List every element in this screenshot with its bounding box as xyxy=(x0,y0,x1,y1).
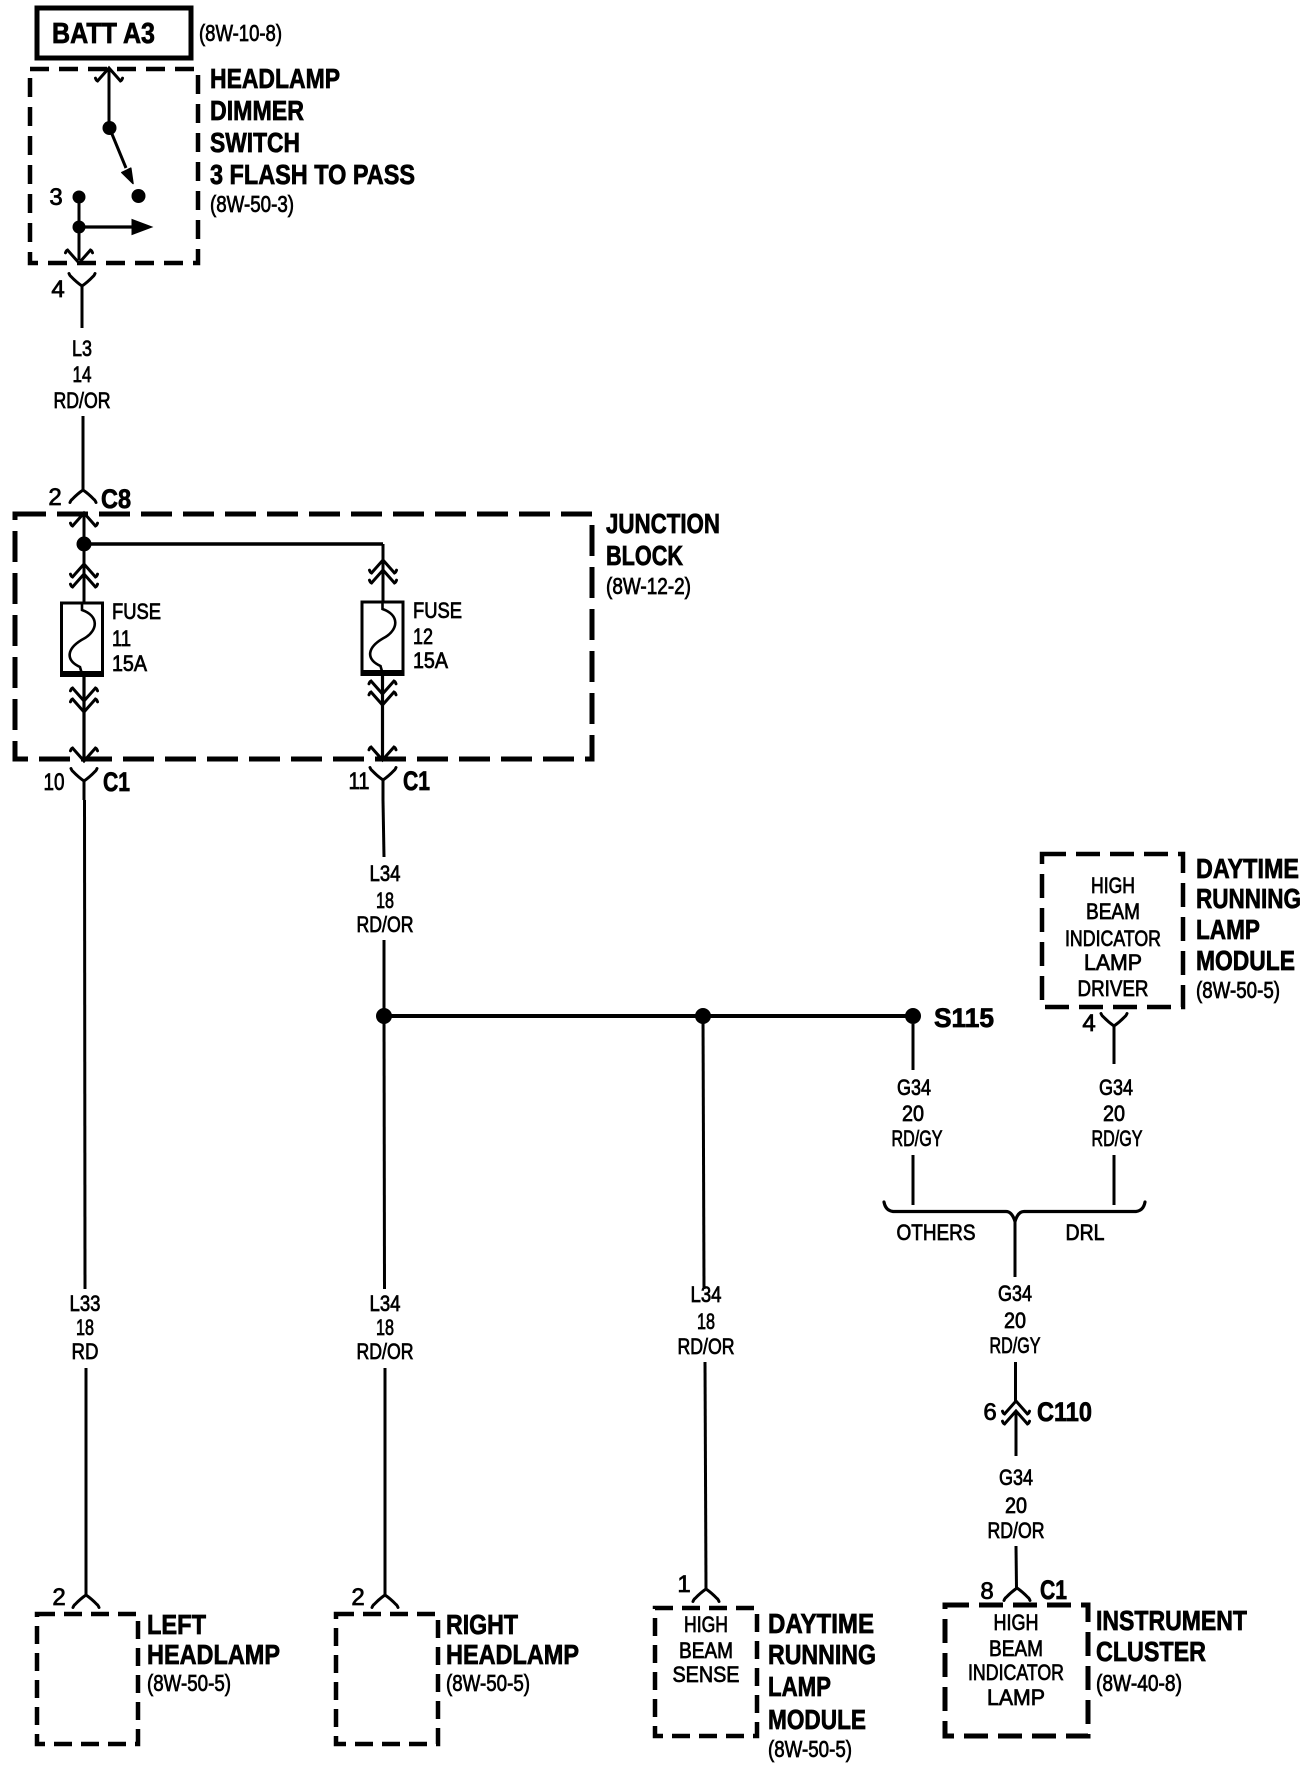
svg-text:LAMP: LAMP xyxy=(987,1685,1045,1710)
svg-text:HEADLAMP: HEADLAMP xyxy=(446,1639,579,1670)
svg-text:OTHERS: OTHERS xyxy=(897,1220,976,1245)
svg-text:18: 18 xyxy=(376,888,394,913)
svg-text:RD: RD xyxy=(72,1339,99,1364)
svg-text:RD/OR: RD/OR xyxy=(54,388,111,413)
svg-text:FUSE: FUSE xyxy=(112,599,161,624)
svg-text:RD/OR: RD/OR xyxy=(357,1339,414,1364)
svg-text:HEADLAMP: HEADLAMP xyxy=(147,1639,280,1670)
svg-text:L34: L34 xyxy=(370,1291,401,1316)
svg-text:10: 10 xyxy=(44,769,65,796)
svg-text:DAYTIME: DAYTIME xyxy=(768,1608,874,1639)
svg-text:(8W-40-8): (8W-40-8) xyxy=(1096,1670,1182,1696)
svg-text:LEFT: LEFT xyxy=(147,1609,206,1640)
svg-text:INSTRUMENT: INSTRUMENT xyxy=(1096,1605,1247,1636)
svg-text:3: 3 xyxy=(49,184,62,211)
svg-text:HIGH: HIGH xyxy=(994,1610,1039,1635)
svg-text:DAYTIME: DAYTIME xyxy=(1196,853,1299,884)
svg-text:11: 11 xyxy=(112,626,131,651)
svg-text:14: 14 xyxy=(73,362,92,387)
svg-text:BEAM: BEAM xyxy=(679,1638,733,1663)
svg-text:DRL: DRL xyxy=(1066,1220,1105,1245)
svg-text:G34: G34 xyxy=(897,1075,931,1100)
svg-text:RUNNING: RUNNING xyxy=(768,1639,876,1670)
svg-text:(8W-50-5): (8W-50-5) xyxy=(446,1670,530,1696)
svg-text:HIGH: HIGH xyxy=(684,1612,728,1637)
svg-text:SENSE: SENSE xyxy=(673,1662,740,1687)
svg-text:SWITCH: SWITCH xyxy=(210,127,300,158)
svg-text:18: 18 xyxy=(76,1315,94,1340)
svg-text:DRIVER: DRIVER xyxy=(1078,976,1149,1001)
svg-text:C1: C1 xyxy=(403,766,430,796)
svg-text:6: 6 xyxy=(983,1399,996,1426)
svg-text:RD/OR: RD/OR xyxy=(678,1334,735,1359)
svg-text:(8W-50-5): (8W-50-5) xyxy=(1196,977,1280,1003)
svg-text:(8W-50-5): (8W-50-5) xyxy=(147,1670,231,1696)
svg-text:2: 2 xyxy=(351,1584,364,1611)
svg-text:MODULE: MODULE xyxy=(1196,945,1295,976)
svg-text:8: 8 xyxy=(980,1578,993,1605)
svg-text:C110: C110 xyxy=(1037,1397,1092,1427)
svg-text:(8W-10-8): (8W-10-8) xyxy=(199,20,282,46)
svg-text:RD/GY: RD/GY xyxy=(1092,1126,1143,1151)
svg-text:LAMP: LAMP xyxy=(1196,914,1260,945)
svg-text:JUNCTION: JUNCTION xyxy=(606,508,720,539)
svg-text:HIGH: HIGH xyxy=(1091,873,1135,898)
svg-text:L3: L3 xyxy=(72,336,92,361)
svg-text:18: 18 xyxy=(697,1309,715,1334)
svg-text:LAMP: LAMP xyxy=(768,1671,831,1702)
svg-text:20: 20 xyxy=(902,1101,924,1126)
svg-text:L34: L34 xyxy=(691,1282,722,1307)
svg-text:RD/OR: RD/OR xyxy=(357,912,414,937)
svg-text:12: 12 xyxy=(413,624,433,649)
svg-text:20: 20 xyxy=(1103,1101,1125,1126)
svg-text:11: 11 xyxy=(349,768,370,795)
svg-text:LAMP: LAMP xyxy=(1084,950,1142,975)
svg-text:L33: L33 xyxy=(70,1291,101,1316)
svg-text:RIGHT: RIGHT xyxy=(446,1609,518,1640)
svg-text:15A: 15A xyxy=(112,651,147,676)
svg-text:BEAM: BEAM xyxy=(989,1636,1043,1661)
svg-text:DIMMER: DIMMER xyxy=(210,95,304,126)
svg-text:G34: G34 xyxy=(999,1465,1033,1490)
svg-text:HEADLAMP: HEADLAMP xyxy=(210,63,340,94)
svg-text:BEAM: BEAM xyxy=(1086,899,1140,924)
svg-text:15A: 15A xyxy=(413,648,448,673)
svg-text:3 FLASH TO PASS: 3 FLASH TO PASS xyxy=(210,159,415,190)
svg-text:G34: G34 xyxy=(1099,1075,1133,1100)
svg-text:C1: C1 xyxy=(103,767,130,797)
svg-text:C1: C1 xyxy=(1040,1575,1067,1605)
svg-text:INDICATOR: INDICATOR xyxy=(1065,926,1161,951)
svg-text:BLOCK: BLOCK xyxy=(606,540,683,571)
svg-text:(8W-12-2): (8W-12-2) xyxy=(606,573,691,599)
svg-text:L34: L34 xyxy=(370,861,401,886)
svg-text:FUSE: FUSE xyxy=(413,598,462,623)
svg-text:INDICATOR: INDICATOR xyxy=(968,1660,1064,1685)
svg-text:RD/GY: RD/GY xyxy=(990,1333,1041,1358)
svg-text:RD/OR: RD/OR xyxy=(988,1518,1045,1543)
svg-text:2: 2 xyxy=(52,1584,65,1611)
svg-text:S115: S115 xyxy=(934,1003,994,1033)
svg-text:2: 2 xyxy=(48,484,61,511)
svg-text:20: 20 xyxy=(1004,1308,1026,1333)
svg-text:RD/GY: RD/GY xyxy=(892,1126,943,1151)
svg-text:MODULE: MODULE xyxy=(768,1704,866,1735)
svg-text:4: 4 xyxy=(1082,1010,1095,1037)
svg-text:4: 4 xyxy=(51,276,64,303)
svg-text:G34: G34 xyxy=(998,1281,1032,1306)
svg-text:BATT A3: BATT A3 xyxy=(52,18,155,50)
svg-text:(8W-50-3): (8W-50-3) xyxy=(210,191,294,217)
svg-text:20: 20 xyxy=(1005,1493,1027,1518)
svg-text:C8: C8 xyxy=(101,484,131,514)
svg-text:18: 18 xyxy=(376,1315,394,1340)
svg-text:CLUSTER: CLUSTER xyxy=(1096,1636,1206,1667)
svg-text:1: 1 xyxy=(677,1571,690,1598)
svg-text:(8W-50-5): (8W-50-5) xyxy=(768,1736,852,1762)
svg-text:RUNNING: RUNNING xyxy=(1196,883,1301,914)
